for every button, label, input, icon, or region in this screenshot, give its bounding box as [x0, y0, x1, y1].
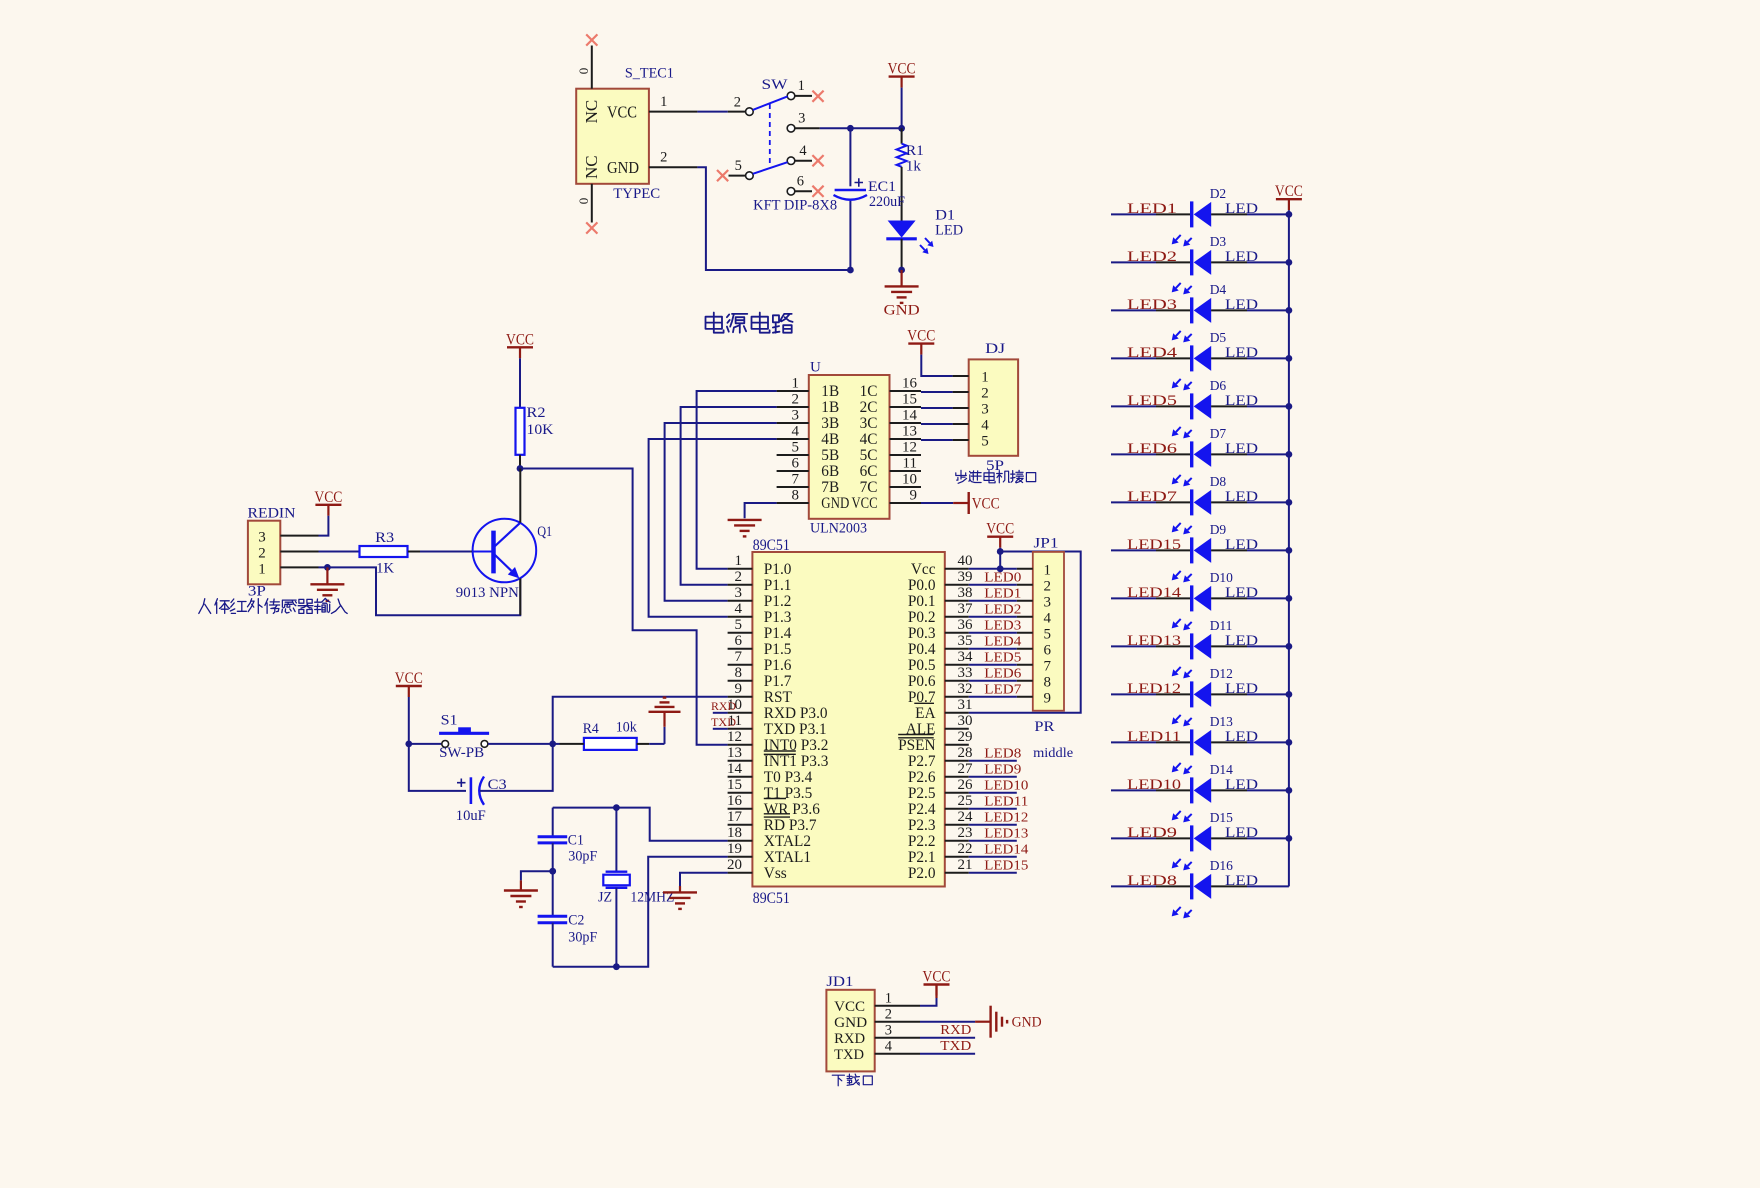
wire net LED8 to diode D16: [1111, 885, 1156, 887]
net stub LED12 at pin 24: [969, 824, 1017, 826]
svg-text:P0.4: P0.4: [908, 641, 936, 658]
no-connect X on switch pin 6: [812, 186, 823, 197]
net stub LED14 at pin 22: [969, 856, 1017, 858]
svg-text:12: 12: [902, 440, 917, 456]
svg-text:2: 2: [660, 149, 667, 165]
Q1 base bar: [491, 531, 496, 574]
D3 emission arrows: [1176, 283, 1181, 288]
diode D14 LED symbol: [1190, 777, 1193, 803]
svg-text:R3: R3: [375, 530, 394, 546]
wire ULN pin2 to 89C51 pin2: [681, 407, 777, 585]
wire ULN pin1 to 89C51 pin1: [697, 391, 777, 569]
no-connect X on S_TEC1 bottom pin: [586, 222, 597, 233]
diode D6 LED symbol: [1190, 393, 1193, 419]
wire diode D16 to VCC rail: [1211, 885, 1247, 887]
svg-text:TYPEC: TYPEC: [613, 186, 660, 202]
svg-text:EC1: EC1: [868, 179, 896, 195]
wire net LED10 to diode D14: [1111, 789, 1156, 791]
svg-text:25: 25: [958, 793, 973, 809]
junction crystal top: [613, 804, 620, 811]
svg-text:3: 3: [258, 530, 266, 546]
no-connect X on switch pin 4: [812, 155, 823, 166]
svg-text:Q1: Q1: [537, 524, 552, 540]
svg-text:VCC: VCC: [834, 999, 865, 1015]
svg-text:P1.4: P1.4: [764, 625, 792, 642]
svg-text:P0.3: P0.3: [908, 625, 936, 642]
svg-text:220uF: 220uF: [869, 194, 905, 210]
svg-text:PR: PR: [1034, 719, 1054, 735]
wire ULN pin15 to DJ pin3: [921, 407, 953, 409]
net stub LED9 at pin 27: [969, 776, 1017, 778]
switch pin 5 pad and stub: [746, 172, 754, 180]
junction LED rail row 10: [1286, 643, 1293, 650]
ground symbol right of JD1 (GND): [989, 1006, 991, 1038]
svg-text:33: 33: [958, 665, 973, 681]
svg-text:P1.2: P1.2: [764, 593, 792, 610]
capacitor C1 plates: [538, 835, 568, 838]
connector JP1 body: [1033, 552, 1064, 711]
resistor R3 body: [360, 546, 408, 557]
svg-text:VCC: VCC: [888, 61, 916, 78]
svg-text:LED0: LED0: [984, 570, 1021, 585]
resistor R2 body: [516, 408, 525, 455]
svg-text:D6: D6: [1210, 378, 1227, 393]
D7 emission arrows: [1176, 475, 1181, 480]
89C51 pin 19 stub: [728, 856, 753, 858]
svg-text:21: 21: [958, 857, 973, 873]
crystal JZ top plate: [606, 871, 628, 873]
wire 89C51 pin18 XTAL2 to C1 rail: [553, 808, 728, 841]
89C51 pin 34 stub: [945, 664, 969, 666]
svg-text:LED7: LED7: [1127, 489, 1178, 505]
svg-text:11: 11: [903, 456, 917, 472]
wire junction to S1: [409, 743, 442, 745]
svg-text:4C: 4C: [860, 431, 878, 448]
wire ULN pin8 to ground: [745, 503, 777, 518]
ULN2003 pin 7 stub: [777, 486, 809, 488]
svg-text:VCC: VCC: [395, 670, 423, 687]
Q1 collector diagonal: [495, 523, 521, 547]
svg-text:VCC: VCC: [986, 521, 1014, 538]
svg-text:19: 19: [727, 841, 742, 857]
svg-text:5B: 5B: [821, 447, 839, 464]
svg-text:3: 3: [798, 111, 805, 127]
wire R2 bottom to junction: [519, 455, 521, 469]
R4 right pin to ground corner: [637, 743, 650, 745]
svg-text:S1: S1: [441, 713, 458, 729]
svg-text:PSEN: PSEN: [898, 737, 935, 754]
89C51 pin 13 stub: [728, 760, 753, 762]
svg-text:1k: 1k: [906, 159, 922, 175]
svg-text:9: 9: [735, 681, 743, 697]
wire VCC to REDIN pin3: [319, 516, 329, 536]
svg-text:LED12: LED12: [984, 810, 1028, 825]
svg-text:P0.6: P0.6: [908, 673, 936, 690]
D5 emission arrows: [1176, 379, 1181, 384]
89C51 pin 17 stub: [728, 824, 753, 826]
svg-text:20: 20: [727, 857, 742, 873]
svg-text:0: 0: [576, 198, 591, 205]
svg-text:D7: D7: [1210, 426, 1227, 441]
svg-text:P0.5: P0.5: [908, 657, 936, 674]
junction LED rail row 2: [1286, 259, 1293, 266]
svg-text:LED3: LED3: [984, 618, 1021, 633]
REDIN pin 1 stub: [280, 566, 318, 568]
junction LED rail row 14: [1286, 835, 1293, 842]
D6 emission arrows: [1176, 427, 1181, 432]
svg-text:P0.2: P0.2: [908, 609, 936, 626]
svg-text:VCC: VCC: [852, 495, 878, 512]
svg-text:SW: SW: [762, 77, 788, 93]
89C51 pin 24 stub: [945, 824, 969, 826]
svg-text:36: 36: [958, 617, 974, 633]
svg-text:3: 3: [735, 585, 743, 601]
svg-text:P0.1: P0.1: [908, 593, 936, 610]
diode D10 LED symbol: [1190, 585, 1193, 611]
svg-text:7C: 7C: [860, 479, 878, 496]
D4 emission arrows: [1176, 331, 1181, 336]
89C51 pin 28 stub: [945, 760, 969, 762]
svg-text:14: 14: [727, 761, 743, 777]
svg-text:39: 39: [958, 569, 973, 585]
DJ pin 4 stub: [953, 423, 969, 425]
89C51 pin 10 stub: [728, 712, 753, 714]
DJ pin 5 stub: [953, 439, 969, 441]
wire midpoint to ground: [521, 871, 553, 880]
svg-text:RXD: RXD: [834, 1031, 865, 1047]
svg-text:P2.6: P2.6: [908, 769, 936, 786]
junction LED rail row 1: [1286, 211, 1293, 218]
ULN2003 pin 12 stub: [890, 454, 922, 456]
svg-text:10: 10: [902, 472, 917, 488]
89C51 pin 32 stub: [945, 696, 969, 698]
svg-text:4: 4: [1043, 610, 1051, 626]
resistor R1 zigzag: [897, 144, 907, 167]
svg-text:JD1: JD1: [826, 974, 853, 990]
wire R2 junction to 89C51 pin12 (net): [520, 469, 728, 745]
svg-text:1: 1: [885, 991, 892, 1007]
wire ULN pin3 to 89C51 pin3: [665, 423, 777, 601]
R4 left pin: [560, 743, 584, 745]
D12 emission arrows: [1176, 715, 1181, 720]
wire junction to R4: [553, 743, 560, 745]
89C51 pin 14 stub: [728, 776, 753, 778]
svg-text:D10: D10: [1210, 570, 1233, 585]
junction LED rail row 12: [1286, 739, 1293, 746]
89C51 pin 5 stub: [728, 632, 753, 634]
switch linkage dashed line: [769, 104, 771, 166]
89C51 pin 1 stub: [728, 568, 753, 570]
REDIN pin 2 stub: [280, 551, 318, 553]
wire 89C51 pin32 to JP1 pin9: [969, 696, 1017, 698]
D16 emission arrows: [1176, 907, 1181, 912]
diode D2 LED symbol: [1190, 201, 1193, 227]
human-ir-sensor-input label 人体红外传感器输入: [199, 599, 211, 614]
wire net LED4 to diode D5: [1111, 357, 1156, 359]
JP1 pin 5 stub: [1017, 632, 1033, 634]
svg-text:INT1 P3.3: INT1 P3.3: [764, 753, 829, 770]
89C51 pin 21 stub: [945, 872, 969, 874]
wire 89C51 pin37 to JP1 pin4: [969, 616, 1017, 618]
89C51 pin 18 stub: [728, 840, 753, 842]
svg-text:3C: 3C: [860, 415, 878, 432]
JP1 pin 9 stub: [1017, 696, 1033, 698]
S_TEC1 pin 1 stub: [649, 111, 698, 113]
svg-text:NC: NC: [582, 155, 601, 179]
svg-text:LED6: LED6: [984, 666, 1021, 681]
svg-text:30pF: 30pF: [568, 930, 597, 946]
svg-text:2: 2: [792, 392, 800, 408]
ULN2003 pin 9 stub: [890, 502, 922, 504]
ground symbol below Vss: [663, 891, 697, 893]
junction LED rail row 11: [1286, 691, 1293, 698]
ground symbol below D1: [900, 270, 902, 286]
svg-text:5C: 5C: [860, 447, 878, 464]
svg-text:R1: R1: [906, 143, 924, 159]
svg-text:GND: GND: [821, 495, 849, 512]
svg-text:LED10: LED10: [984, 778, 1028, 793]
svg-text:5: 5: [735, 617, 743, 633]
89C51 pin 22 stub: [945, 856, 969, 858]
wire net LED9 to diode D15: [1111, 837, 1156, 839]
89C51 pin 23 stub: [945, 840, 969, 842]
svg-text:24: 24: [958, 809, 974, 825]
svg-text:LED10: LED10: [1127, 777, 1181, 793]
connector S_TEC1 body (TYPEC): [576, 89, 649, 184]
svg-text:5: 5: [1043, 626, 1051, 642]
svg-text:P1.3: P1.3: [764, 609, 792, 626]
D2 emission arrows: [1176, 235, 1181, 240]
wire S1 to junction: [488, 743, 553, 745]
89C51 pin 20 stub: [728, 872, 753, 874]
svg-text:LED13: LED13: [984, 826, 1028, 841]
89C51 pin 33 stub: [945, 680, 969, 682]
svg-text:D1: D1: [935, 208, 955, 224]
svg-text:LED9: LED9: [1127, 825, 1177, 841]
svg-text:LED15: LED15: [984, 858, 1028, 873]
89C51 pin 15 stub: [728, 792, 753, 794]
svg-text:WR P3.6: WR P3.6: [764, 801, 820, 818]
svg-text:8: 8: [735, 665, 743, 681]
junction EC1 bottom: [847, 267, 854, 274]
junction D1 bottom: [898, 267, 905, 274]
diode D11 LED symbol: [1190, 633, 1193, 659]
svg-text:1K: 1K: [376, 561, 395, 577]
svg-text:P2.1: P2.1: [908, 849, 936, 866]
no-connect X on S_TEC1 top pin: [586, 34, 597, 45]
ULN2003 pin 2 stub: [777, 406, 809, 408]
svg-text:30: 30: [958, 713, 973, 729]
89C51 pin 35 stub: [945, 648, 969, 650]
diode D8 LED symbol: [1190, 489, 1193, 515]
ULN2003 pin 5 stub: [777, 454, 809, 456]
capacitor C3 right plate (arc): [479, 777, 484, 805]
svg-text:31: 31: [958, 697, 973, 713]
ground symbol below REDIN pin1: [326, 567, 328, 584]
D14 emission arrows: [1176, 811, 1181, 816]
junction crystal bottom: [613, 963, 620, 970]
89C51 pin 36 stub: [945, 632, 969, 634]
svg-text:ULN2003: ULN2003: [810, 521, 867, 537]
svg-text:ALE: ALE: [906, 721, 936, 738]
89C51 pin 7 stub: [728, 664, 753, 666]
svg-text:37: 37: [958, 601, 974, 617]
svg-text:8: 8: [1043, 674, 1051, 690]
wire C1 top lead: [552, 808, 554, 837]
wire REDIN pin2 to R3: [319, 551, 360, 553]
svg-text:7: 7: [792, 472, 800, 488]
ULN2003 pin 4 stub: [777, 438, 809, 440]
svg-text:LED9: LED9: [984, 762, 1021, 777]
svg-text:LED11: LED11: [984, 794, 1028, 809]
svg-text:2: 2: [735, 569, 743, 585]
89C51 pin 30 stub: [945, 728, 969, 730]
svg-text:89C51: 89C51: [753, 890, 790, 907]
svg-text:KFT DIP-8X8: KFT DIP-8X8: [753, 198, 837, 214]
svg-text:middle: middle: [1033, 746, 1073, 761]
net stub LED10 at pin 26: [969, 792, 1017, 794]
D13 emission arrows: [1176, 763, 1181, 768]
89C51 pin 9 stub: [728, 696, 753, 698]
svg-text:8: 8: [792, 488, 800, 504]
svg-text:D3: D3: [1210, 234, 1227, 249]
89C51 pin 38 stub: [945, 600, 969, 602]
wire net LED15 to diode D9: [1111, 549, 1156, 551]
wire diode D5 to VCC rail: [1211, 357, 1247, 359]
diode D13 LED symbol: [1190, 729, 1193, 755]
power symbol VCC at ULN pin9: [921, 502, 953, 504]
wire diode D2 to VCC rail: [1211, 213, 1247, 215]
svg-text:10uF: 10uF: [456, 808, 486, 824]
89C51 pin 29 stub: [945, 744, 969, 746]
ULN2003 pin 13 stub: [890, 438, 922, 440]
svg-text:TXD: TXD: [711, 715, 736, 729]
junction LED rail row 7: [1286, 499, 1293, 506]
capacitor C3 left plate: [470, 777, 473, 804]
svg-text:17: 17: [727, 809, 743, 825]
junction LED rail row 13: [1286, 787, 1293, 794]
svg-text:RST: RST: [764, 689, 793, 706]
svg-text:15: 15: [902, 392, 917, 408]
svg-text:P2.4: P2.4: [908, 801, 936, 818]
svg-text:VCC: VCC: [506, 331, 534, 348]
89C51 pin 6 stub: [728, 648, 753, 650]
svg-text:2C: 2C: [860, 399, 878, 416]
wire diode D6 to VCC rail: [1211, 405, 1247, 407]
switch pin 3 pad and stub: [787, 125, 795, 133]
D15 emission arrows: [1176, 859, 1181, 864]
capacitor C2 plates: [538, 915, 568, 918]
capacitor EC1 bottom plate (arc): [834, 195, 868, 200]
svg-text:P2.0: P2.0: [908, 865, 936, 882]
svg-text:26: 26: [958, 777, 974, 793]
svg-text:D12: D12: [1210, 666, 1233, 681]
svg-text:5: 5: [735, 158, 742, 174]
svg-text:U: U: [810, 360, 821, 376]
svg-text:RD P3.7: RD P3.7: [764, 817, 817, 834]
svg-text:1: 1: [660, 94, 667, 110]
wire net LED5 to diode D6: [1111, 405, 1156, 407]
wire diode D7 to VCC rail: [1211, 453, 1247, 455]
junction LED rail row 3: [1286, 307, 1293, 314]
JP1 pin 4 stub: [1017, 616, 1033, 618]
svg-text:6C: 6C: [860, 463, 878, 480]
svg-text:D13: D13: [1210, 714, 1233, 729]
junction REDIN pin1/ground: [324, 564, 331, 571]
D11 emission arrows: [1176, 667, 1181, 672]
junction LED rail row 6: [1286, 451, 1293, 458]
svg-text:29: 29: [958, 729, 973, 745]
diode D12 LED symbol: [1190, 681, 1193, 707]
svg-text:C2: C2: [568, 913, 584, 929]
switch pin 1 pad and stub: [787, 92, 795, 100]
D1 emission arrows: [925, 238, 930, 243]
JP1 pin 1 stub: [1017, 568, 1033, 570]
svg-text:6: 6: [792, 456, 800, 472]
89C51 pin 4 stub: [728, 616, 753, 618]
svg-text:D8: D8: [1210, 474, 1227, 489]
svg-text:3P: 3P: [248, 584, 266, 600]
svg-text:Vcc: Vcc: [911, 561, 936, 578]
JP1 pin 6 stub: [1017, 648, 1033, 650]
svg-text:D15: D15: [1210, 810, 1233, 825]
JD1 pin 4 stub: [875, 1053, 920, 1055]
svg-text:7: 7: [735, 649, 743, 665]
net stub LED8 at pin 28: [969, 760, 1017, 762]
89C51 pin 39 stub: [945, 584, 969, 586]
wire JD1 pin1 to VCC: [920, 998, 937, 1006]
capacitor EC1 lead top: [849, 128, 851, 186]
wire diode D13 to VCC rail: [1211, 741, 1247, 743]
wire diode D8 to VCC rail: [1211, 501, 1247, 503]
diode D15 LED symbol: [1190, 825, 1193, 851]
svg-text:P2.2: P2.2: [908, 833, 936, 850]
junction LED rail row 9: [1286, 595, 1293, 602]
89C51 pin 3 stub: [728, 600, 753, 602]
svg-text:VCC: VCC: [1275, 183, 1303, 200]
S_TEC1 pin 2 stub: [649, 166, 698, 168]
svg-text:3: 3: [885, 1023, 892, 1039]
DJ pin 2 stub: [953, 391, 969, 393]
junction VCC/R1: [898, 125, 905, 132]
svg-text:3: 3: [792, 408, 800, 424]
89C51 pin 12 stub: [728, 744, 753, 746]
svg-text:1: 1: [792, 376, 800, 392]
svg-text:10K: 10K: [527, 422, 555, 438]
wire net LED3 to diode D4: [1111, 309, 1156, 311]
svg-text:REDIN: REDIN: [248, 506, 296, 522]
svg-text:LED15: LED15: [1127, 537, 1181, 553]
svg-text:7: 7: [1043, 658, 1051, 674]
svg-text:2: 2: [981, 386, 989, 402]
wire 89C51 pin39 to JP1 pin2: [969, 584, 1017, 586]
ULN2003 pin 10 stub: [890, 486, 922, 488]
wire switch pin3 to VCC junction: [820, 127, 902, 129]
svg-text:R4: R4: [583, 721, 600, 737]
svg-text:LED6: LED6: [1127, 441, 1178, 457]
wire diode D9 to VCC rail: [1211, 549, 1247, 551]
wire D1 to ground junction: [901, 239, 903, 270]
89C51 pin 40 stub: [945, 568, 969, 570]
JP1 pin 8 stub: [1017, 680, 1033, 682]
svg-text:15: 15: [727, 777, 742, 793]
svg-text:1B: 1B: [821, 399, 839, 416]
LED rail VCC vertical: [1288, 214, 1290, 886]
svg-text:30pF: 30pF: [568, 849, 597, 865]
svg-text:JZ: JZ: [598, 890, 612, 906]
wire net LED1 to diode D2: [1111, 213, 1156, 215]
svg-text:LED2: LED2: [1127, 249, 1177, 265]
